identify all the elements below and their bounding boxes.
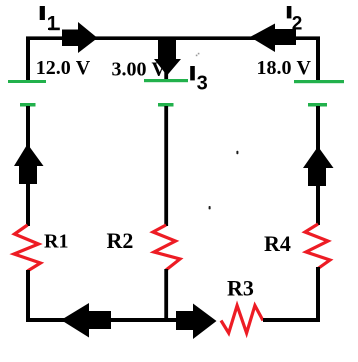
- current arrow I3 down: [154, 40, 181, 76]
- svg-text:2: 2: [292, 13, 303, 34]
- wire bottom right segment: [263, 318, 320, 322]
- resistor R3: [221, 306, 263, 334]
- stray dot: [236, 151, 238, 154]
- battery V1 12.0 V short plate: [20, 103, 36, 107]
- battery V1 12.0 V long plate: [8, 80, 46, 83]
- svg-text:3.00 V: 3.00 V: [112, 58, 167, 80]
- current arrow up right branch: [303, 147, 334, 187]
- battery V3 18.0 V short plate: [308, 103, 327, 107]
- wire middle vertical middle: [164, 106, 168, 226]
- wire middle vertical upper: [164, 37, 168, 80]
- wire right vertical middle: [316, 106, 320, 225]
- resistor R4: [305, 224, 330, 269]
- current arrow I1 on top wire: [62, 22, 98, 53]
- wire left vertical upper: [26, 37, 30, 81]
- wire left vertical middle: [26, 106, 30, 226]
- wire right vertical upper: [316, 37, 320, 81]
- svg-text:R4: R4: [264, 231, 291, 256]
- battery V2 3.00 V long plate: [144, 79, 188, 82]
- svg-text:3: 3: [197, 72, 208, 94]
- svg-text:R2: R2: [107, 228, 134, 253]
- wire bottom left segment: [26, 318, 178, 322]
- svg-text:R1: R1: [44, 231, 68, 253]
- battery V2 3.00 V short plate: [158, 103, 174, 107]
- svg-text:18.0 V: 18.0 V: [257, 57, 312, 79]
- current arrow up left branch: [14, 144, 44, 184]
- svg-text:1: 1: [47, 13, 58, 35]
- label I2: [287, 6, 303, 34]
- label I1: [40, 6, 60, 35]
- wire left vertical lower: [26, 270, 30, 321]
- svg-text:R3: R3: [227, 275, 254, 300]
- stray dot: [209, 206, 211, 209]
- stray mark: [196, 53, 200, 56]
- resistor R2: [153, 225, 180, 270]
- svg-text:12.0 V: 12.0 V: [36, 57, 91, 79]
- current arrow right on bottom wire: [176, 304, 217, 340]
- current arrow I2 on top wire: [250, 24, 296, 53]
- wire top horizontal: [26, 36, 320, 40]
- current arrow left on bottom wire: [61, 303, 111, 338]
- battery V3 18.0 V long plate: [294, 80, 344, 83]
- resistor R1: [14, 225, 41, 271]
- wire middle vertical lower: [164, 269, 168, 321]
- wire right vertical lower: [316, 267, 320, 321]
- label I3: [190, 66, 208, 94]
